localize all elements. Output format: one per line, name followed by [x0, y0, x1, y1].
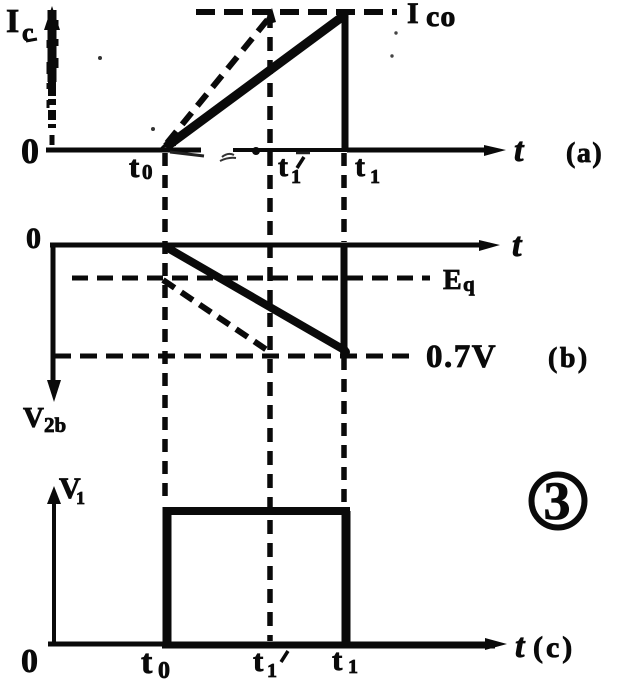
- svg-text:0.7V: 0.7V: [426, 339, 497, 375]
- svg-text:t: t: [332, 642, 343, 677]
- svg-text:co: co: [426, 0, 456, 33]
- svg-text:t: t: [355, 150, 365, 183]
- svg-text:t: t: [253, 643, 264, 678]
- svg-text:3: 3: [544, 471, 571, 531]
- svg-text:1: 1: [370, 166, 380, 188]
- svg-text:q: q: [463, 272, 475, 296]
- svg-text:0: 0: [21, 131, 39, 171]
- svg-text:t: t: [514, 132, 525, 169]
- svg-text:2b: 2b: [44, 413, 66, 437]
- svg-text:1: 1: [291, 166, 301, 188]
- svg-text:1: 1: [348, 656, 358, 678]
- svg-text:1: 1: [76, 488, 85, 508]
- svg-text:(b): (b): [548, 343, 590, 374]
- svg-text:0: 0: [21, 643, 38, 680]
- svg-text:0: 0: [142, 160, 153, 184]
- svg-text:1: 1: [267, 660, 277, 682]
- svg-text:I: I: [6, 3, 19, 40]
- svg-text:E: E: [443, 265, 462, 296]
- svg-text:c: c: [22, 18, 34, 47]
- svg-text:t: t: [515, 628, 526, 665]
- svg-text:(a): (a): [566, 138, 603, 169]
- svg-text:(c): (c): [533, 631, 575, 664]
- svg-text:0: 0: [158, 658, 170, 684]
- svg-text:t: t: [278, 150, 288, 183]
- svg-text:t: t: [141, 644, 153, 681]
- svg-text:0: 0: [26, 222, 41, 255]
- svg-text:t: t: [129, 149, 140, 184]
- svg-text:V: V: [23, 402, 44, 434]
- svg-text:t: t: [512, 227, 523, 264]
- svg-text:I: I: [407, 0, 419, 30]
